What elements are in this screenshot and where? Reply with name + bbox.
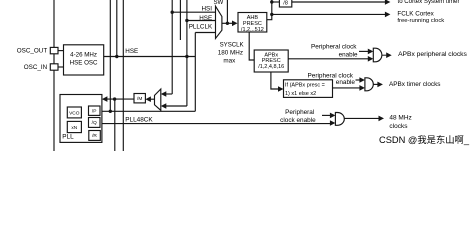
svg-text:/M: /M	[137, 96, 142, 102]
arrow into gate3 top	[330, 113, 336, 119]
svg-text:/1,2,4,8,16: /1,2,4,8,16	[258, 64, 284, 70]
wire gate2 output	[373, 83, 378, 85]
gate2 APBx timer	[365, 78, 373, 91]
wire SYSCLK from SW mux	[222, 22, 233, 24]
arrow into gate1 top	[368, 49, 374, 55]
arrow gate2 output	[377, 82, 383, 88]
wire pll mux top input	[166, 93, 172, 95]
arrow into if-box	[278, 86, 284, 92]
chip boundary line	[53, 0, 55, 151]
wire VCO stub	[63, 110, 67, 112]
arrow gate1 output	[386, 52, 392, 58]
svg-text:180 MHz: 180 MHz	[218, 50, 243, 57]
svg-text:max: max	[223, 57, 236, 64]
wire PLLCLK to SW mux	[195, 32, 215, 34]
wire FCLK line	[272, 13, 386, 15]
svg-text:HSE: HSE	[125, 48, 138, 55]
svg-text:to Cortex System timer: to Cortex System timer	[398, 0, 460, 5]
condition if-box	[284, 80, 333, 98]
svg-text:enable: enable	[336, 79, 356, 86]
svg-text:OSC_IN: OSC_IN	[24, 64, 48, 71]
PLL outer box	[60, 95, 102, 143]
svg-text:clocks: clocks	[389, 123, 408, 130]
arrow into gate2 bottom	[359, 85, 365, 91]
svg-text:If (APBx presc =: If (APBx presc =	[285, 82, 325, 88]
svg-text:Peripheral: Peripheral	[285, 109, 314, 116]
wire M out to PLL	[107, 98, 134, 100]
divider /M box	[134, 94, 145, 103]
svg-text:APBx timer clocks: APBx timer clocks	[389, 81, 441, 88]
wire vertical below M line	[114, 99, 116, 151]
svg-text:48 MHz: 48 MHz	[389, 114, 411, 121]
VCO box	[67, 107, 81, 118]
svg-text:PLL: PLL	[62, 134, 74, 141]
wire mux to M	[150, 98, 154, 100]
svg-text:/8: /8	[283, 0, 288, 6]
divider /P box	[89, 106, 101, 115]
wire HSI vertical VD	[171, 0, 173, 94]
wire if-box to gate2	[333, 87, 361, 89]
gate1 APBx peripheral	[373, 48, 382, 62]
wire vertical VC	[122, 0, 124, 151]
svg-text:xN: xN	[71, 125, 77, 131]
wire PLL internal input to VCO and xN	[63, 100, 102, 127]
pin OSC_IN	[50, 64, 58, 70]
pin OSC_OUT	[50, 47, 58, 53]
svg-text:4-26 MHz: 4-26 MHz	[70, 52, 97, 59]
mux SW	[216, 6, 222, 38]
svg-text:/R: /R	[92, 133, 97, 139]
wire Cortex timer line	[292, 1, 386, 3]
wire vertical VA	[109, 0, 111, 111]
svg-text:HSE: HSE	[199, 15, 212, 22]
wire vertical VB	[116, 0, 118, 57]
wire AHB out riser	[267, 0, 272, 20]
arrow into AHB box	[232, 21, 238, 27]
wire enable1 arrow line	[359, 50, 368, 52]
svg-text:SW: SW	[213, 0, 223, 6]
wire HSE to SW mux	[187, 20, 216, 22]
arrow FCLK	[385, 12, 391, 18]
wire PLLCLK riser	[194, 33, 196, 112]
wire dividers feed vertical	[85, 113, 89, 136]
arrow pll mux top	[161, 91, 167, 97]
divider /R box	[89, 131, 101, 141]
wire HSE net	[104, 56, 196, 58]
svg-text:SYSCLK: SYSCLK	[220, 42, 244, 49]
arrow gate3 output	[379, 116, 385, 122]
wire to /8 box	[272, 1, 280, 3]
wire HSI to SW mux	[172, 11, 215, 13]
svg-text:enable: enable	[339, 51, 358, 58]
arrow Cortex timer	[385, 0, 391, 5]
svg-text:OSC_OUT: OSC_OUT	[17, 48, 48, 55]
wire enable2 arrow line	[356, 79, 361, 81]
divider /8 box	[279, 0, 291, 7]
oscillator HSE OSC box	[64, 45, 104, 75]
wire APBx down to if-box	[271, 72, 278, 89]
arrow pll mux bottom	[161, 103, 167, 109]
mux PLL source	[155, 89, 161, 110]
svg-text:VCO: VCO	[69, 111, 80, 117]
wire VCO to xN	[73, 118, 75, 122]
svg-text:Peripheral clock: Peripheral clock	[311, 44, 357, 51]
arrow into gate1 bottom	[368, 56, 374, 62]
svg-text:clock enable: clock enable	[280, 117, 316, 124]
junction dots	[171, 11, 174, 14]
wire HSE vertical VF	[186, 0, 188, 106]
divider xN box	[67, 121, 81, 132]
svg-text:CSDN @我是东山啊_: CSDN @我是东山啊_	[379, 134, 470, 145]
svg-text:/Q: /Q	[92, 120, 97, 126]
wire feed Q	[87, 121, 89, 123]
svg-text:/P: /P	[92, 108, 97, 114]
wire SYSCLK riser up	[226, 0, 228, 23]
wire APBx out to gate1	[288, 58, 368, 60]
wire enable3 arrow line	[322, 114, 331, 116]
svg-text:PLLCLK: PLLCLK	[189, 23, 213, 30]
wire PLL48CK line	[100, 123, 330, 125]
arrow into /M	[145, 96, 151, 102]
arrow into gate2 top	[359, 77, 365, 83]
svg-text:1) x1 else x2: 1) x1 else x2	[285, 91, 316, 97]
wire OSC_IN pin to box	[58, 66, 64, 68]
svg-text:APBx peripheral clocks: APBx peripheral clocks	[398, 51, 467, 58]
wire gate1 output stub	[382, 55, 387, 56]
svg-text:PLL48CK: PLL48CK	[125, 117, 153, 124]
svg-text:free-running clock: free-running clock	[397, 18, 444, 24]
arrow into gate3 bottom	[330, 120, 336, 126]
gate3 48MHz	[335, 113, 344, 126]
svg-text:HSE OSC: HSE OSC	[70, 60, 98, 67]
wire vertical VE	[179, 0, 181, 40]
wire gate3 output	[344, 117, 379, 119]
wire OSC_OUT pin to box	[58, 50, 64, 52]
wire feed P	[87, 110, 89, 112]
prescaler AHB box	[238, 13, 267, 33]
divider /Q box	[89, 118, 101, 128]
svg-text:FCLK Cortex: FCLK Cortex	[397, 11, 434, 18]
wire AHB down to APBx	[249, 32, 254, 60]
prescaler APBx box	[254, 50, 288, 72]
arrow into PLL	[102, 96, 108, 102]
svg-text:HSI: HSI	[202, 5, 213, 12]
wire P out line	[102, 110, 195, 112]
svg-text:/1,2,..512: /1,2,..512	[241, 27, 264, 33]
wire pll mux bottom input	[166, 105, 187, 107]
circuit: STM32 clock tree fragment	[0, 0, 474, 151]
